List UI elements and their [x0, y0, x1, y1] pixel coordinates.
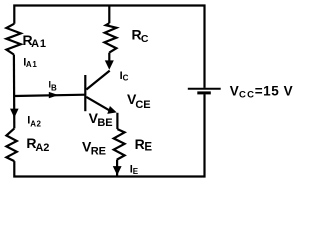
svg-text:RA2: RA2 — [26, 135, 49, 154]
svg-text:VCC=15 V: VCC=15 V — [230, 84, 293, 101]
svg-text:RA1: RA1 — [23, 32, 47, 50]
svg-text:RE: RE — [135, 136, 153, 153]
svg-text:VRE: VRE — [82, 139, 106, 158]
svg-text:IE: IE — [130, 163, 139, 176]
svg-text:IA2: IA2 — [27, 115, 41, 129]
svg-text:IC: IC — [120, 70, 129, 83]
svg-text:IB: IB — [49, 79, 58, 92]
svg-text:RC: RC — [132, 27, 149, 46]
svg-text:IA1: IA1 — [23, 56, 37, 69]
svg-text:VCE: VCE — [127, 91, 151, 111]
